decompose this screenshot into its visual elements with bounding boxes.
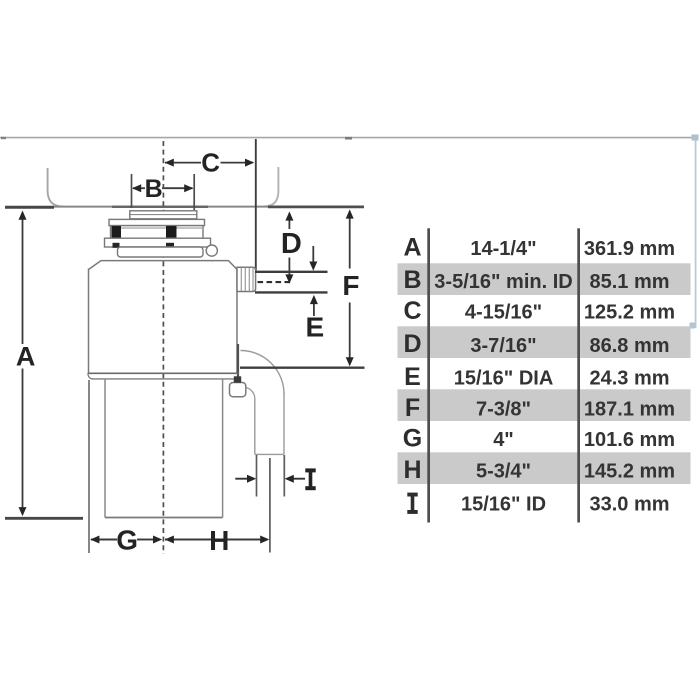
mounting bolt right: [166, 226, 177, 238]
svg-text:3-7/16": 3-7/16": [470, 335, 536, 357]
svg-text:F: F: [405, 394, 420, 422]
svg-text:15/16" DIA: 15/16" DIA: [454, 368, 554, 390]
lower mounting ring slab 4: [105, 238, 211, 247]
dishwasher inlet nipple: [237, 267, 256, 291]
svg-text:H: H: [403, 456, 421, 484]
table row D: [403, 330, 669, 358]
right border: [690, 135, 699, 329]
svg-text:4": 4": [493, 429, 514, 451]
vertical centerline (dash-dot): [162, 141, 164, 554]
svg-text:C: C: [403, 297, 421, 325]
dimension H: [165, 525, 270, 556]
svg-text:C: C: [201, 147, 220, 177]
dimension B: [132, 174, 195, 210]
svg-text:86.8 mm: 86.8 mm: [589, 335, 669, 357]
elbow coupling line: [255, 453, 284, 455]
elbow walls: [283, 393, 285, 454]
svg-text:G: G: [116, 525, 138, 556]
sink left wall: [48, 168, 63, 207]
svg-text:H: H: [209, 525, 229, 556]
table divider right: [577, 228, 580, 522]
elbow top reference line (F): [240, 367, 365, 369]
dimension C extension line: [255, 139, 257, 271]
dimension G left extension tick: [88, 380, 90, 553]
svg-text:F: F: [342, 270, 359, 301]
sink bottom line: [54, 206, 270, 208]
nipple bottom reference line (E bottom): [255, 291, 328, 293]
lower housing: [105, 379, 223, 518]
table gray band row H: [398, 452, 691, 484]
svg-text:5-3/4": 5-3/4": [476, 461, 531, 483]
svg-text:361.9 mm: 361.9 mm: [584, 238, 675, 260]
svg-text:14-1/4": 14-1/4": [470, 238, 536, 260]
table row E: [404, 363, 669, 391]
table row H: [403, 456, 675, 484]
svg-text:15/16" ID: 15/16" ID: [461, 494, 546, 516]
svg-text:B: B: [403, 266, 421, 294]
svg-text:24.3 mm: 24.3 mm: [589, 368, 669, 390]
svg-text:A: A: [403, 233, 421, 261]
svg-text:D: D: [403, 330, 421, 358]
gasket ring slab 5: [118, 247, 204, 257]
disposer upper body walls: [88, 269, 90, 374]
mounting bolt left: [112, 226, 122, 238]
table row C: [403, 297, 675, 325]
dimension A top extension bar: [5, 206, 54, 209]
table row A: [403, 233, 675, 261]
svg-text:G: G: [403, 424, 422, 452]
dimension E: [306, 295, 325, 342]
svg-text:7-3/8": 7-3/8": [476, 399, 531, 421]
svg-text:3-5/16" min. ID: 3-5/16" min. ID: [434, 271, 572, 293]
clamp screw circle: [206, 245, 217, 256]
dimension D: [281, 211, 302, 283]
svg-text:B: B: [145, 175, 163, 203]
dimension E upper pointer: [309, 246, 317, 271]
table row F: [405, 394, 675, 422]
table row I: [407, 493, 669, 516]
top border: [0, 137, 697, 140]
table row B: [403, 266, 669, 294]
svg-text:101.6 mm: 101.6 mm: [584, 429, 675, 451]
svg-text:187.1 mm: 187.1 mm: [584, 399, 675, 421]
table divider left: [427, 228, 430, 522]
dimension I: [235, 468, 315, 490]
svg-text:145.2 mm: 145.2 mm: [584, 461, 675, 483]
table row G: [403, 424, 675, 452]
svg-text:A: A: [16, 341, 36, 371]
svg-text:E: E: [404, 363, 421, 391]
bolt lower tip right: [166, 243, 174, 248]
dashed nipple centerline: [258, 281, 294, 283]
body right wall dark lower segment: [237, 344, 239, 382]
svg-text:33.0 mm: 33.0 mm: [589, 494, 669, 516]
nipple top reference line (E top / D bottom): [255, 271, 328, 273]
sink right wall: [264, 167, 279, 207]
table gray band row F: [398, 389, 691, 421]
dimension C: [165, 147, 255, 177]
table gray band row D: [398, 326, 691, 358]
discharge tube walls / I extension ticks: [256, 455, 258, 497]
svg-text:85.1 mm: 85.1 mm: [589, 271, 669, 293]
waist band: [88, 372, 239, 374]
elbow mounting tab: [230, 383, 246, 397]
discharge elbow outer curve: [241, 351, 285, 395]
discharge elbow inner curve: [246, 388, 255, 400]
mounting ring slab 2: [109, 219, 205, 225]
svg-text:D: D: [281, 228, 302, 260]
sink flange slab 1: [130, 211, 197, 219]
dimension G: [90, 525, 162, 556]
bolt lower tip left: [113, 243, 120, 248]
sink line right reference bar (for D and F): [268, 206, 364, 209]
disposer upper body dome: [89, 261, 238, 270]
dimension F: [342, 209, 359, 366]
svg-text:125.2 mm: 125.2 mm: [584, 302, 675, 324]
svg-text:E: E: [306, 311, 325, 342]
dimension A bottom extension bar: [5, 517, 83, 520]
mounting ring slab 3: [111, 226, 204, 239]
svg-text:4-15/16": 4-15/16": [465, 302, 542, 324]
elbow joint dark block: [234, 376, 241, 382]
table gray band row B: [398, 263, 691, 295]
dimension A: [16, 211, 36, 517]
dimension H right extension line: [269, 458, 271, 553]
